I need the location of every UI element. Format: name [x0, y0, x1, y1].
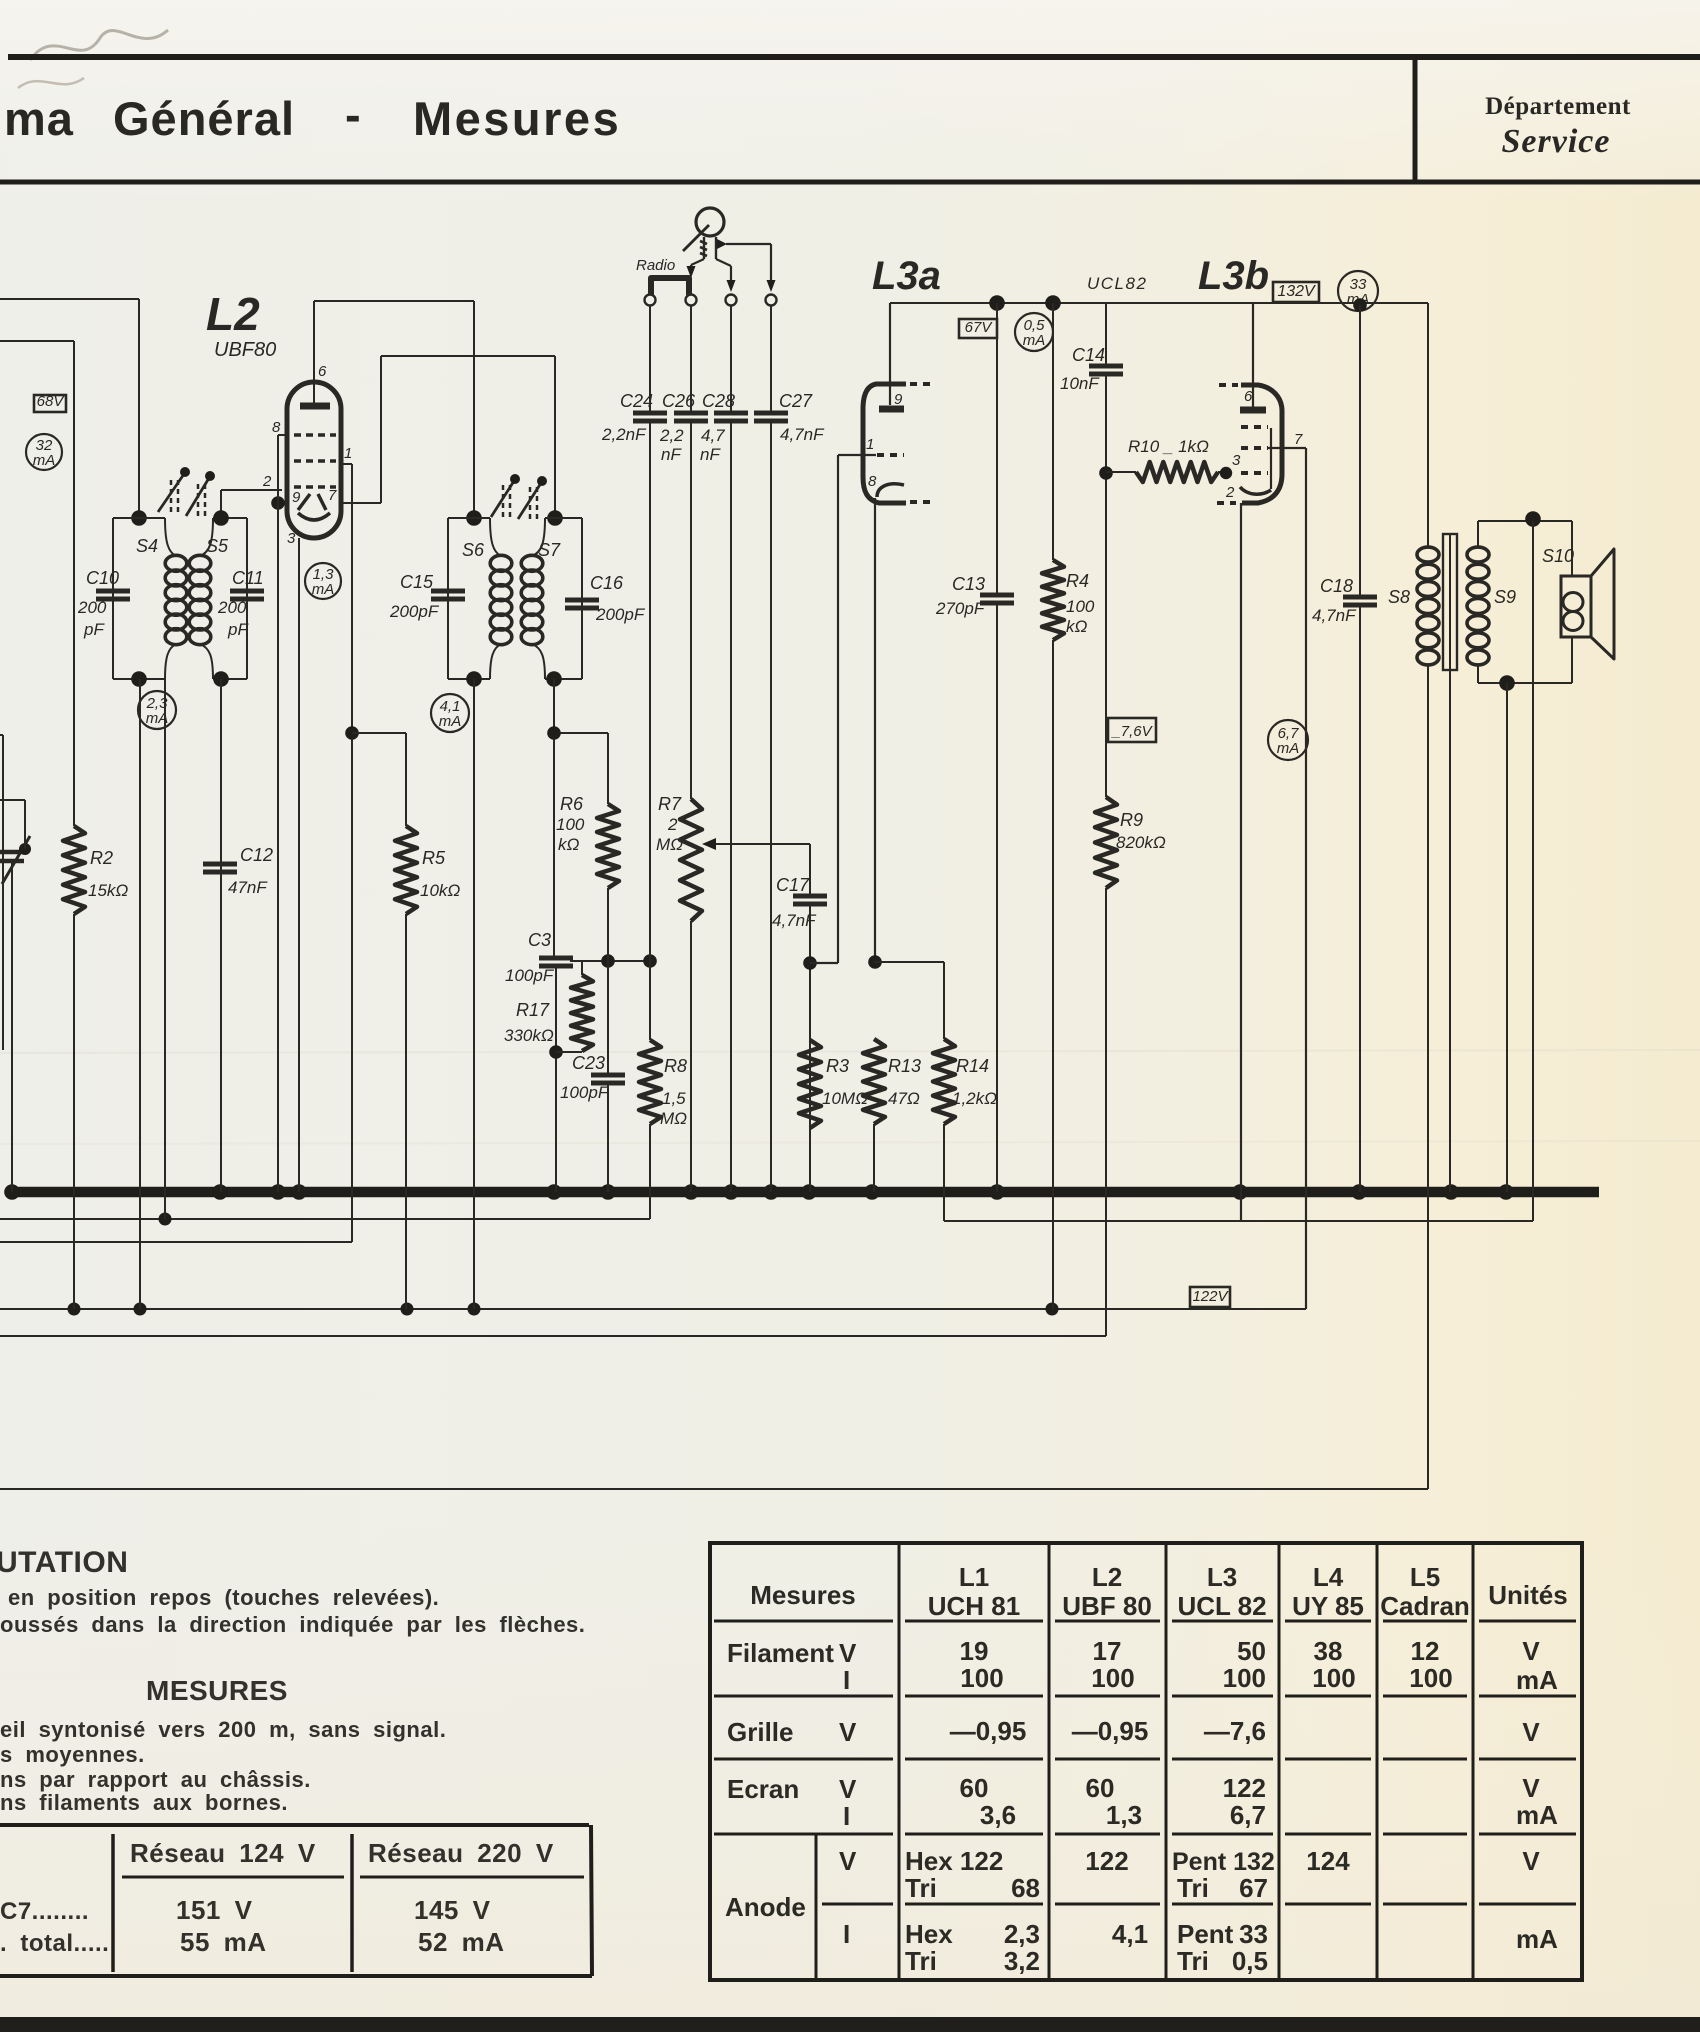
svg-text:V: V — [839, 1774, 857, 1804]
Radio shorting bracket — [651, 278, 689, 295]
label C12 — [240, 845, 273, 865]
svg-text:100: 100 — [1091, 1663, 1134, 1693]
label S9 — [1494, 587, 1516, 607]
svg-text:_7,6V: _7,6V — [1110, 723, 1153, 740]
resistor R13 — [863, 1039, 885, 1124]
svg-text:Pent 132: Pent 132 — [1172, 1848, 1275, 1876]
wire top-left to S4 (node A) — [0, 298, 139, 300]
svg-text:pF: pF — [83, 620, 105, 639]
svg-text:100: 100 — [1066, 597, 1095, 616]
wire pin3 down — [298, 538, 300, 1192]
svg-text:pF: pF — [227, 620, 249, 639]
label C28 — [702, 391, 735, 411]
svg-text:kΩ: kΩ — [1066, 617, 1088, 636]
resistor R4 — [1042, 560, 1064, 640]
label C16 — [590, 573, 624, 593]
svg-text:mA: mA — [1516, 1924, 1558, 1954]
wire S8 bottom — [1427, 666, 1429, 1489]
text COMMUTATION heading — [0, 1546, 128, 1579]
value C11 200pF — [217, 598, 249, 639]
svg-text:67V: 67V — [965, 319, 994, 336]
wire C28 bottom — [730, 420, 732, 1192]
svg-text:-: - — [345, 88, 361, 141]
small table frame — [0, 1825, 592, 1976]
value C28 — [700, 426, 725, 464]
svg-text:122: 122 — [1223, 1773, 1266, 1803]
value C17 4,7nF — [772, 911, 817, 930]
svg-text:C13: C13 — [952, 574, 985, 594]
svg-text:Mesures: Mesures — [413, 92, 621, 145]
small table header Reseau 124V — [130, 1838, 316, 1868]
svg-text:L5: L5 — [1410, 1562, 1440, 1592]
label C27 — [779, 391, 813, 411]
value R9 820k — [1116, 833, 1166, 852]
table row Filament — [727, 1636, 1558, 1695]
svg-text:R8: R8 — [664, 1056, 687, 1076]
svg-text:1,2kΩ: 1,2kΩ — [952, 1089, 997, 1108]
svg-text:mA: mA — [1516, 1800, 1558, 1830]
measurement table header — [750, 1562, 1567, 1621]
svg-text:R17: R17 — [516, 1000, 550, 1020]
wire HT to S8 — [1427, 303, 1429, 546]
svg-text:L1: L1 — [959, 1562, 989, 1592]
label S7 — [538, 540, 561, 560]
label R4 — [1066, 571, 1089, 591]
UBF80 pin 6 lead — [314, 301, 327, 403]
svg-text:C3: C3 — [528, 930, 551, 950]
wire C13 line — [989, 295, 1005, 1192]
value R14 1,2k — [952, 1089, 997, 1108]
value C16 200pF — [595, 605, 646, 624]
svg-text:Unités: Unités — [1488, 1580, 1567, 1610]
svg-text:67: 67 — [1239, 1873, 1268, 1903]
value C23 100pF — [560, 1083, 610, 1102]
svg-text:38: 38 — [1314, 1636, 1343, 1666]
wire core to bus — [1449, 670, 1451, 1192]
IF transformer S6/S7 frame — [448, 518, 582, 679]
svg-text:I: I — [843, 1919, 850, 1949]
L3b anode plate — [1240, 388, 1266, 410]
svg-text:132V: 132V — [1277, 283, 1316, 300]
svg-text:V: V — [1522, 1773, 1540, 1803]
svg-text:270pF: 270pF — [935, 599, 986, 618]
svg-text:ns filaments aux bornes.: ns filaments aux bornes. — [0, 1790, 288, 1815]
capacitor C23 — [591, 1075, 625, 1083]
wire R4 line — [1045, 295, 1061, 560]
wire R8 bottom — [649, 1124, 651, 1219]
Departement Service box — [1415, 60, 1631, 182]
svg-text:55 mA: 55 mA — [180, 1927, 267, 1957]
wire C24 top — [649, 305, 651, 413]
svg-text:C7........: C7........ — [0, 1898, 89, 1925]
svg-text:Ecran: Ecran — [727, 1774, 799, 1804]
svg-text:68: 68 — [1011, 1873, 1040, 1903]
tube label L3a — [872, 254, 941, 298]
svg-text:C16: C16 — [590, 573, 624, 593]
resistor R3 — [799, 1040, 821, 1128]
wire S7 top feed — [547, 356, 563, 526]
svg-text:330kΩ: 330kΩ — [504, 1026, 554, 1045]
wire R6 bottom — [607, 888, 609, 961]
left frame wire — [0, 735, 3, 1050]
svg-text:mA: mA — [1023, 332, 1046, 349]
wire C14 top — [1105, 303, 1107, 366]
svg-text:2: 2 — [667, 815, 678, 834]
value C14 10nF — [1060, 374, 1100, 393]
svg-text:R6: R6 — [560, 794, 584, 814]
value C18 4,7nF — [1312, 606, 1357, 625]
wire R14 bottom — [943, 1124, 945, 1221]
label C23 — [572, 1053, 605, 1073]
svg-text:Pent: Pent — [1177, 1919, 1234, 1949]
svg-text:100: 100 — [1409, 1663, 1452, 1693]
meter 2,3 mA — [138, 691, 176, 729]
svg-text:Réseau 124 V: Réseau 124 V — [130, 1838, 316, 1868]
wire S7 bottom down — [546, 671, 562, 958]
trimmer over S7 — [518, 476, 547, 519]
label R13 — [888, 1056, 921, 1076]
trimmer over S6 — [491, 474, 520, 517]
svg-text:100pF: 100pF — [560, 1083, 610, 1102]
L3a anode plate — [879, 391, 904, 409]
label C13 — [952, 574, 985, 594]
svg-text:UY 85: UY 85 — [1292, 1591, 1364, 1621]
trimmer over S5 — [186, 471, 215, 516]
svg-text:6: 6 — [318, 363, 327, 380]
voltage label 132V — [1273, 282, 1319, 302]
value C24 2,2nF — [601, 425, 647, 444]
UBF80 grid dashes pin 2 — [262, 473, 336, 490]
label R2 — [90, 848, 113, 868]
wire S4 bottom down — [131, 671, 147, 1309]
resistor R10 — [1106, 462, 1232, 482]
svg-text:ma: ma — [4, 92, 74, 145]
svg-text:4,7nF: 4,7nF — [1312, 606, 1357, 625]
svg-text:S6: S6 — [462, 540, 485, 560]
wire top-left to R2 — [0, 340, 74, 342]
svg-text:0,5: 0,5 — [1232, 1946, 1268, 1976]
svg-text:Radio: Radio — [636, 257, 675, 274]
switch wire mid — [716, 259, 736, 292]
wire L3b cathode down — [1240, 503, 1242, 1221]
svg-text:17: 17 — [1093, 1636, 1122, 1666]
svg-text:122V: 122V — [1192, 1288, 1229, 1305]
meter 6,7 mA — [1268, 720, 1308, 760]
svg-text:10MΩ: 10MΩ — [822, 1089, 868, 1108]
svg-text:Réseau 220 V: Réseau 220 V — [368, 1838, 554, 1868]
svg-text:C14: C14 — [1072, 345, 1105, 365]
small table header Reseau 220V — [368, 1838, 554, 1868]
coil S7 — [521, 555, 543, 644]
capacitor C10 — [96, 591, 130, 599]
svg-text:100pF: 100pF — [505, 966, 555, 985]
svg-text:1,3: 1,3 — [1106, 1800, 1142, 1830]
trimmer over S4 — [158, 467, 190, 512]
svg-text:15kΩ: 15kΩ — [88, 881, 128, 900]
AVC line 122V — [0, 1303, 1306, 1316]
label C17 — [776, 875, 810, 895]
svg-text:9: 9 — [292, 489, 301, 506]
capacitor C27 — [754, 413, 788, 421]
svg-text:nF: nF — [700, 445, 721, 464]
wire C27 top — [770, 305, 772, 413]
wire L3b plate up — [1252, 303, 1254, 407]
tube label L2 — [206, 288, 260, 340]
svg-text:33: 33 — [1239, 1919, 1268, 1949]
svg-text:nF: nF — [661, 445, 682, 464]
svg-text:151 V: 151 V — [176, 1895, 253, 1925]
capacitor C11 — [230, 591, 264, 599]
wire C18 bottom — [1359, 605, 1361, 1192]
svg-text:3,6: 3,6 — [980, 1800, 1016, 1830]
small table row C7 — [0, 1895, 491, 1925]
meter 33 mA — [1338, 271, 1378, 312]
svg-text:R5: R5 — [422, 848, 446, 868]
label C11 — [232, 568, 264, 588]
label S6 — [462, 540, 485, 560]
svg-text:1: 1 — [866, 436, 874, 453]
svg-text:C17: C17 — [776, 875, 810, 895]
svg-text:UTATION: UTATION — [0, 1546, 128, 1579]
resistor R7 potentiometer — [680, 799, 702, 921]
wire R5 bottom — [405, 914, 407, 1309]
svg-text:MΩ: MΩ — [660, 1109, 687, 1128]
wire pin7 to S7 — [341, 356, 381, 503]
svg-text:124: 124 — [1306, 1846, 1350, 1876]
wire pin1 junction down — [345, 503, 359, 1242]
HT feed return line — [0, 1488, 1428, 1490]
wire R13 bottom — [873, 1124, 875, 1192]
wire C3 to junction — [549, 966, 563, 1192]
svg-text:Mesures: Mesures — [750, 1580, 856, 1610]
wire L3a plate up — [889, 303, 891, 405]
resistor R2 — [63, 826, 85, 914]
svg-text:R4: R4 — [1066, 571, 1089, 591]
IF transformer S4/S5 frame — [113, 518, 247, 679]
value C26 — [659, 426, 684, 464]
svg-text:V: V — [1522, 1846, 1540, 1876]
svg-text:. total.....: . total..... — [0, 1930, 109, 1957]
svg-text:3,2: 3,2 — [1004, 1946, 1040, 1976]
wire L2 pin7 top run — [381, 355, 555, 357]
text line moyennes — [0, 1742, 145, 1767]
svg-text:12: 12 — [1411, 1636, 1440, 1666]
capacitor C13 — [980, 595, 1014, 603]
text line chassis — [0, 1767, 311, 1792]
value C13 270pF — [935, 599, 986, 618]
table row Anode — [725, 1846, 1558, 1976]
svg-text:Anode: Anode — [725, 1892, 806, 1922]
svg-text:200: 200 — [77, 598, 107, 617]
svg-text:mA: mA — [312, 581, 335, 598]
wire detector node to pin1 riser — [810, 455, 838, 963]
label R8 — [660, 1056, 687, 1128]
svg-text:7: 7 — [1294, 431, 1303, 448]
label C24 — [620, 391, 653, 411]
svg-text:60: 60 — [1086, 1773, 1115, 1803]
capacitor C12 — [203, 864, 237, 872]
svg-text:8: 8 — [868, 473, 877, 490]
value R3 10M — [822, 1089, 868, 1108]
svg-text:V: V — [1522, 1636, 1540, 1666]
svg-text:100: 100 — [960, 1663, 1003, 1693]
small table row I total — [0, 1927, 505, 1957]
svg-text:6: 6 — [1244, 388, 1253, 405]
table row Grille — [727, 1716, 1540, 1747]
wire cathode branch to R14 — [874, 962, 944, 1039]
L3a grid dashes pin 1 — [866, 436, 904, 455]
svg-text:19: 19 — [960, 1636, 989, 1666]
svg-text:100: 100 — [1223, 1663, 1266, 1693]
value R13 47 — [888, 1089, 920, 1108]
UBF80 diode plates — [292, 487, 337, 510]
resistor R6 — [597, 804, 619, 888]
svg-text:UCH 81: UCH 81 — [928, 1591, 1020, 1621]
resistor R5 — [395, 826, 417, 914]
svg-text:C10: C10 — [86, 568, 119, 588]
svg-text:47nF: 47nF — [228, 878, 268, 897]
L3a envelope dashes top — [910, 382, 930, 386]
wire L3a cathode down — [868, 498, 882, 969]
loudspeaker S10 — [1561, 549, 1614, 659]
svg-text:Filament: Filament — [727, 1638, 834, 1668]
svg-text:200: 200 — [217, 598, 247, 617]
svg-text:C27: C27 — [779, 391, 813, 411]
tube L3b envelope — [1241, 385, 1282, 503]
wire C27 bottom — [770, 420, 772, 1192]
svg-text:oussés dans la direction indiq: oussés dans la direction indiquée par le… — [0, 1612, 585, 1637]
label R7 — [656, 794, 683, 854]
value C3 100pF — [505, 966, 555, 985]
svg-text:V: V — [839, 1638, 857, 1668]
svg-text:52 mA: 52 mA — [418, 1927, 505, 1957]
label R10 1k — [1128, 437, 1209, 456]
svg-text:4,7nF: 4,7nF — [780, 425, 825, 444]
L3b cathode arc — [1225, 484, 1271, 501]
label C3 — [528, 930, 551, 950]
UBF80 cathode arc — [287, 513, 330, 547]
svg-text:—0,95: —0,95 — [950, 1716, 1027, 1746]
svg-text:Grille: Grille — [727, 1717, 793, 1747]
text line pousses — [0, 1612, 585, 1637]
wire L3b pin7 — [1267, 448, 1306, 1309]
title top rule — [8, 54, 1700, 60]
secondary coil S9 — [1467, 547, 1489, 665]
wire C26 top — [690, 305, 692, 413]
svg-text:Tri: Tri — [905, 1946, 937, 1976]
label S5 — [206, 536, 229, 556]
value C15 200pF — [389, 602, 440, 621]
label R6 — [556, 794, 585, 854]
value R4 100k — [1066, 597, 1095, 636]
svg-text:50: 50 — [1237, 1636, 1266, 1666]
wire S6 bottom down — [466, 671, 482, 1309]
tube UBF80 envelope — [287, 382, 341, 538]
svg-text:UCL 82: UCL 82 — [1177, 1591, 1266, 1621]
value C12 47nF — [228, 878, 268, 897]
svg-text:mA: mA — [439, 713, 462, 730]
svg-text:4,7: 4,7 — [701, 426, 725, 445]
wire S9 bottom down — [1506, 683, 1508, 1192]
grid bias line -7,6V — [0, 1335, 1106, 1337]
svg-text:2,2nF: 2,2nF — [601, 425, 647, 444]
knob shaft hatch — [700, 237, 716, 259]
svg-text:100: 100 — [556, 815, 585, 834]
label C14 — [1072, 345, 1105, 365]
wire pin1 loop — [341, 464, 352, 503]
coil S6 — [490, 555, 512, 644]
wire to R2 — [73, 341, 75, 826]
AGC return wire — [0, 1241, 352, 1243]
title bottom rule — [0, 180, 1700, 185]
wire R17 top link — [570, 954, 657, 968]
tube type UCL82 — [1087, 274, 1147, 293]
svg-text:R10 _ 1kΩ: R10 _ 1kΩ — [1128, 437, 1209, 456]
svg-text:S7: S7 — [538, 540, 561, 560]
transformer core — [1443, 534, 1457, 670]
coil S4 — [165, 555, 187, 644]
L3b envelope dashes top — [1219, 383, 1238, 387]
svg-text:200pF: 200pF — [389, 602, 440, 621]
svg-text:—0,95: —0,95 — [1072, 1716, 1149, 1746]
svg-text:S8: S8 — [1388, 587, 1410, 607]
faint scan creases — [0, 63, 1700, 1144]
svg-text:Tri: Tri — [905, 1873, 937, 1903]
svg-text:1: 1 — [344, 445, 352, 462]
bus junction dots — [4, 1184, 1514, 1200]
svg-text:68V: 68V — [37, 393, 66, 410]
svg-text:60: 60 — [960, 1773, 989, 1803]
svg-text:mA: mA — [33, 452, 56, 469]
value R17 330k — [504, 1026, 554, 1045]
resistor R9 — [1095, 797, 1117, 888]
svg-text:MΩ: MΩ — [656, 835, 683, 854]
capacitor C28 — [714, 413, 748, 421]
svg-text:C11: C11 — [232, 568, 264, 588]
chassis ground bus — [8, 1187, 1599, 1198]
svg-text:V: V — [1522, 1717, 1540, 1747]
svg-text:—7,6: —7,6 — [1204, 1716, 1266, 1746]
svg-text:Service: Service — [1502, 123, 1611, 160]
wire C24 line down — [649, 420, 651, 962]
L3b grid dashes g3 — [1241, 427, 1271, 489]
L3b grid dashes pin 3 — [1232, 452, 1268, 473]
svg-text:UCL82: UCL82 — [1087, 274, 1147, 293]
terminal post 2 — [686, 295, 697, 306]
svg-text:V: V — [839, 1717, 857, 1747]
terminal post 3 — [726, 295, 737, 306]
text MESURES heading — [146, 1675, 288, 1706]
svg-text:eil syntonisé vers 200 m, sans: eil syntonisé vers 200 m, sans signal. — [0, 1717, 446, 1742]
svg-text:S9: S9 — [1494, 587, 1516, 607]
svg-text:L3a: L3a — [872, 254, 941, 298]
return wire below bus right — [159, 1213, 1534, 1226]
L3b grid dashes g1 pin 7 — [1241, 431, 1303, 448]
wire S5 bottom down — [213, 671, 229, 1192]
capacitor C15 — [431, 591, 465, 599]
label S4 — [136, 536, 158, 556]
svg-text:820kΩ: 820kΩ — [1116, 833, 1166, 852]
svg-text:R3: R3 — [826, 1056, 849, 1076]
svg-text:3: 3 — [1232, 452, 1241, 469]
terminal post 1 — [645, 295, 656, 306]
svg-text:L2: L2 — [1092, 1562, 1122, 1592]
label C26 — [662, 391, 696, 411]
svg-text:C26: C26 — [662, 391, 696, 411]
svg-text:Hex 122: Hex 122 — [905, 1846, 1003, 1876]
svg-text:7: 7 — [328, 487, 337, 504]
svg-text:1,5: 1,5 — [662, 1089, 686, 1108]
